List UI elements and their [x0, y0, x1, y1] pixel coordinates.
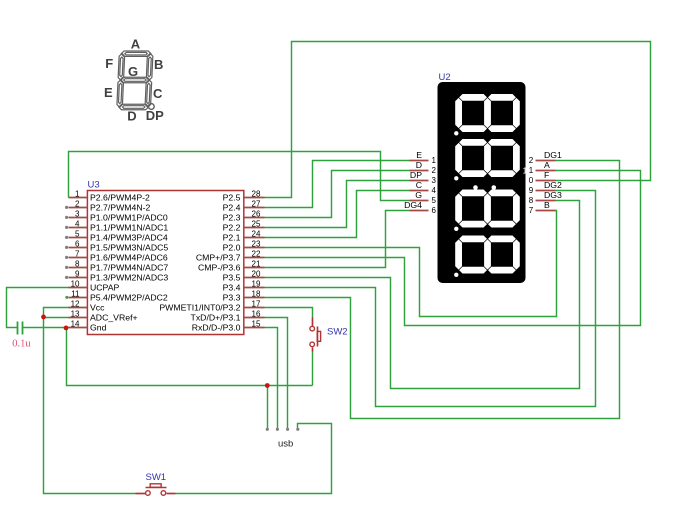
7-segment legend annotation — [104, 36, 164, 123]
svg-text:U2: U2 — [439, 72, 451, 83]
U2 digit 1 segments — [455, 94, 520, 132]
U3 pin 26 (P2.3) — [223, 210, 265, 223]
U3 pin 20 (P3.5) — [223, 270, 265, 283]
svg-text:CMP+/P3.7: CMP+/P3.7 — [196, 253, 241, 263]
wire net CMP-/P3.6 to U2 pin DG4 — [265, 211, 410, 268]
svg-text:P2.5: P2.5 — [223, 193, 241, 203]
U3 pin 19 (P3.4) — [223, 280, 265, 293]
svg-text:5: 5 — [75, 230, 80, 239]
svg-text:PWMETI1/INT0/P3.2: PWMETI1/INT0/P3.2 — [159, 303, 240, 313]
svg-text:E: E — [104, 85, 113, 100]
svg-text:9: 9 — [529, 186, 534, 195]
svg-text:P3.5: P3.5 — [223, 273, 241, 283]
svg-text:0: 0 — [529, 176, 534, 185]
U2 pin 9 (DG2) — [529, 180, 562, 195]
svg-text:6: 6 — [432, 206, 437, 215]
U2 digit 1 decimal point — [454, 131, 458, 135]
U2 digit 2 decimal point — [454, 176, 458, 180]
U3 pin 3 (P1.0/PWM1P/ADC0) — [65, 210, 168, 223]
wire SW2 bottom to ground rail — [312, 352, 314, 386]
svg-text:21: 21 — [252, 260, 261, 269]
svg-text:P1.0/PWM1P/ADC0: P1.0/PWM1P/ADC0 — [90, 213, 168, 223]
svg-text:D: D — [127, 108, 136, 123]
wire net UCPAP to capacitor left — [7, 288, 69, 328]
svg-text:usb: usb — [278, 439, 293, 450]
svg-text:Gnd: Gnd — [90, 323, 107, 333]
svg-text:E: E — [416, 150, 422, 160]
U3 pin 7 (P1.6/PWM4P/ADC6) — [65, 250, 168, 263]
svg-text:P1.6/PWM4P/ADC6: P1.6/PWM4P/ADC6 — [90, 253, 168, 263]
svg-text:P2.4: P2.4 — [223, 203, 241, 213]
svg-text:15: 15 — [252, 320, 261, 329]
svg-text:P1.7/PWM4N/ADC7: P1.7/PWM4N/ADC7 — [90, 263, 168, 273]
U3 pin 4 (P1.1/PWM1N/ADC1) — [65, 220, 168, 233]
U2 pin 2 (D) — [410, 160, 437, 175]
wire net Vcc / ADC_VRef+ down-left to SW1 left — [44, 308, 136, 494]
wire net P2.2 to U2 pin DP — [265, 181, 410, 228]
svg-text:4: 4 — [75, 220, 80, 229]
svg-text:P1.4/PWM3P/ADC4: P1.4/PWM3P/ADC4 — [90, 233, 168, 243]
U3 pin 28 (P2.5) — [223, 190, 265, 203]
svg-text:P2.6/PWM4P-2: P2.6/PWM4P-2 — [90, 193, 150, 203]
wire net P3.5 to U2 pin DG3 — [265, 201, 580, 389]
svg-text:U3: U3 — [88, 180, 100, 191]
U3 pin 22 (CMP+/P3.7) — [196, 250, 265, 263]
svg-text:SW1: SW1 — [146, 472, 167, 483]
U2 pin 4 (C) — [410, 180, 437, 195]
svg-text:P2.0: P2.0 — [223, 243, 241, 253]
U3 pin 12 (Vcc) — [69, 300, 106, 313]
U2 pin 11 (A) — [529, 160, 556, 175]
junction Gnd / capacitor net — [64, 326, 69, 331]
svg-text:5: 5 — [432, 196, 437, 205]
svg-text:24: 24 — [252, 230, 261, 239]
wire usb pin 1 to ground rail — [267, 386, 269, 429]
svg-text:P1.3/PWM2N/ADC3: P1.3/PWM2N/ADC3 — [90, 273, 168, 283]
svg-text:4: 4 — [432, 186, 437, 195]
U2 pin 1 (E) — [410, 150, 437, 165]
svg-text:1: 1 — [75, 190, 80, 199]
svg-text:B: B — [154, 57, 163, 72]
wire net P2.3 to U2 pin D — [265, 171, 410, 218]
U3 pin 17 (PWMETI1/INT0/P3.2) — [159, 300, 264, 313]
U3 pin 13 (ADC_VRef+) — [69, 310, 138, 323]
svg-text:A: A — [131, 36, 141, 51]
svg-text:P3.4: P3.4 — [223, 283, 241, 293]
svg-text:1: 1 — [432, 156, 437, 165]
U2 pin 10 (F) — [529, 170, 556, 185]
U2 digit 4 decimal point — [454, 273, 458, 277]
U3 pin 24 (P2.1) — [223, 230, 265, 243]
U3 pin 18 (P3.3) — [223, 290, 265, 303]
U3 pin 1 (P2.6/PWM4P-2) — [69, 190, 151, 203]
svg-text:B: B — [544, 200, 550, 210]
svg-text:20: 20 — [252, 270, 261, 279]
wire SW1 right to usb pin 4 — [176, 424, 332, 494]
U3 pin 6 (P1.5/PWM3N/ADC5) — [65, 240, 168, 253]
svg-text:14: 14 — [71, 320, 80, 329]
U3 pin 16 (TxD/D+/P3.1) — [191, 310, 265, 323]
svg-text:P2.7/PWM4N-2: P2.7/PWM4N-2 — [90, 203, 151, 213]
U2 digit 3 segments — [455, 190, 520, 228]
svg-text:TxD/D+/P3.1: TxD/D+/P3.1 — [191, 313, 241, 323]
svg-text:7: 7 — [529, 206, 534, 215]
svg-text:P2.1: P2.1 — [223, 233, 241, 243]
svg-text:P1.5/PWM3N/ADC5: P1.5/PWM3N/ADC5 — [90, 243, 168, 253]
svg-text:28: 28 — [252, 190, 261, 199]
svg-text:ADC_VRef+: ADC_VRef+ — [90, 313, 138, 323]
svg-text:P2.2: P2.2 — [223, 223, 241, 233]
U3 pin 9 (P1.3/PWM2N/ADC3) — [65, 270, 168, 283]
svg-text:2: 2 — [75, 200, 80, 209]
svg-text:P3.3: P3.3 — [223, 293, 241, 303]
svg-text:C: C — [416, 180, 422, 190]
IC U3 body — [87, 191, 243, 335]
svg-text:SW2: SW2 — [327, 327, 348, 338]
svg-text:DG3: DG3 — [544, 190, 562, 200]
svg-text:P5.4/PWM2P/ADC2: P5.4/PWM2P/ADC2 — [90, 293, 168, 303]
U2 pin 5 (G) — [410, 190, 437, 205]
svg-text:9: 9 — [75, 270, 80, 279]
svg-text:22: 22 — [252, 250, 261, 259]
svg-text:2: 2 — [432, 166, 437, 175]
svg-text:DG1: DG1 — [544, 150, 562, 160]
svg-text:DP: DP — [410, 170, 422, 180]
svg-text:UCPAP: UCPAP — [90, 283, 119, 293]
U2 colon dots — [473, 185, 478, 190]
svg-text:7: 7 — [75, 250, 80, 259]
svg-text:A: A — [544, 160, 550, 170]
U3 pin 14 (Gnd) — [69, 320, 107, 333]
U3 pin 8 (P1.7/PWM4N/ADC7) — [65, 260, 168, 273]
U3 pin 21 (CMP-/P3.6) — [198, 260, 264, 273]
svg-text:DG4: DG4 — [404, 200, 422, 210]
svg-text:2: 2 — [529, 156, 534, 165]
svg-text:8: 8 — [529, 196, 534, 205]
svg-text:8: 8 — [75, 260, 80, 269]
svg-text:G: G — [128, 64, 138, 79]
U3 pin 10 (UCPAP) — [69, 280, 120, 293]
connector usb pins — [266, 428, 300, 431]
svg-text:G: G — [415, 190, 422, 200]
switch SW2 push button — [310, 318, 321, 352]
junction ground rail / usb pin 1 — [265, 383, 270, 388]
svg-text:F: F — [544, 170, 549, 180]
U3 pin 23 (P2.0) — [223, 240, 265, 253]
wire capacitor right to Gnd pin — [23, 327, 69, 329]
U3 pin 25 (P2.2) — [223, 220, 265, 233]
switch SW1 push button — [136, 484, 176, 496]
svg-text:6: 6 — [75, 240, 80, 249]
U2 digit 3 decimal point — [454, 227, 458, 231]
svg-text:25: 25 — [252, 220, 261, 229]
U2 digit 2 segments — [455, 139, 520, 177]
svg-text:DP: DP — [146, 108, 164, 123]
U2 pin 8 (DG3) — [529, 190, 562, 205]
svg-text:17: 17 — [252, 300, 261, 309]
wire net P2.5 to U2 pin F — [265, 42, 651, 198]
svg-text:19: 19 — [252, 280, 261, 289]
svg-text:3: 3 — [432, 176, 437, 185]
wire net P3.4 to U2 pin DG2 — [265, 191, 596, 407]
svg-text:1: 1 — [529, 166, 534, 175]
junction ADC_VRef+ / Vcc net — [41, 315, 46, 320]
U3 pin 2 (P2.7/PWM4N-2) — [65, 200, 151, 213]
svg-text:C: C — [153, 86, 163, 101]
U3 pin 15 (RxD/D-/P3.0) — [192, 320, 265, 333]
wire net P2.4 to U2 pin E — [265, 161, 410, 208]
wire net RxD/D-/P3.0 to usb pin 2 — [265, 328, 278, 429]
svg-text:18: 18 — [252, 290, 261, 299]
svg-text:P2.3: P2.3 — [223, 213, 241, 223]
svg-text:D: D — [416, 160, 422, 170]
svg-text:23: 23 — [252, 240, 261, 249]
wire net TxD/D+/P3.1 to usb pin 3 — [265, 318, 288, 429]
U3 pin 5 (P1.4/PWM3P/ADC4) — [65, 230, 168, 243]
wire net P2.6 to U2 pin G — [69, 152, 410, 201]
U2 pin 7 (B) — [529, 200, 556, 215]
wire Gnd down to ground rail — [67, 328, 313, 386]
svg-text:F: F — [105, 56, 113, 71]
svg-text:P1.1/PWM1N/ADC1: P1.1/PWM1N/ADC1 — [90, 223, 168, 233]
wire net CMP+/P3.7 to U2 pin A — [265, 171, 641, 326]
svg-text:DG2: DG2 — [544, 180, 562, 190]
display U2 body — [438, 82, 526, 283]
capacitor C1 0.1u — [17, 322, 19, 335]
svg-text:27: 27 — [252, 200, 261, 209]
svg-text:16: 16 — [252, 310, 261, 319]
wire net P2.1 to U2 pin C — [265, 191, 410, 238]
U2 pin 6 (DG4) — [404, 200, 436, 215]
svg-text:11: 11 — [71, 290, 80, 299]
svg-text:1: 1 — [523, 167, 528, 176]
svg-text:13: 13 — [71, 310, 80, 319]
wire net P3.3 to U2 pin DG1 — [265, 161, 620, 419]
svg-text:26: 26 — [252, 210, 261, 219]
svg-text:Vcc: Vcc — [90, 303, 105, 313]
wire net P3.2 to SW2 top — [265, 308, 313, 318]
U2 pin 3 (DP) — [410, 170, 437, 185]
svg-text:10: 10 — [71, 280, 80, 289]
svg-text:3: 3 — [75, 210, 80, 219]
svg-text:12: 12 — [71, 300, 80, 309]
svg-text:RxD/D-/P3.0: RxD/D-/P3.0 — [192, 323, 241, 333]
wire net P2.0 to U2 pin B — [265, 211, 557, 317]
svg-text:CMP-/P3.6: CMP-/P3.6 — [198, 263, 241, 273]
svg-text:0.1u: 0.1u — [12, 339, 31, 350]
U2 pin 12 (DG1) — [529, 150, 562, 165]
U3 pin 27 (P2.4) — [223, 200, 265, 213]
wire ADC_VRef+ to Vcc vertical — [44, 317, 69, 319]
U3 pin 11 (P5.4/PWM2P/ADC2) — [65, 290, 168, 303]
U2 digit 4 segments — [455, 236, 520, 274]
